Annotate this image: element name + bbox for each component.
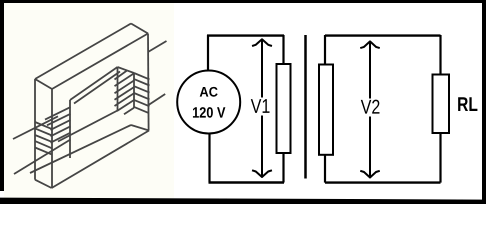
core front-right vertical edge xyxy=(147,34,150,131)
lead wire upper left xyxy=(13,116,58,139)
wire primary bottom xyxy=(209,181,285,183)
lead wire lower right xyxy=(149,94,166,105)
core window top edge xyxy=(70,67,118,100)
voltmeter arrow V2 xyxy=(361,41,379,177)
core window left vertical edge xyxy=(69,100,71,158)
primary lead wires (left) xyxy=(13,116,71,174)
transformer core T1 (isometric frame) xyxy=(30,24,149,189)
V2 arrow head bottom xyxy=(361,171,379,177)
coil turn side segments xyxy=(35,122,52,129)
core back-left vertical edge xyxy=(34,79,36,180)
wire secondary top xyxy=(325,34,441,36)
V2 arrow head top xyxy=(361,41,379,47)
core window right vertical edge xyxy=(117,67,119,111)
core top-right depth edge xyxy=(131,24,148,34)
coil ridge vertical xyxy=(133,73,135,108)
core front bottom edge xyxy=(52,131,149,189)
voltmeter arrow V1 xyxy=(253,39,271,177)
load resistor RL (rectangle) xyxy=(433,75,450,134)
core bottom-right depth edge xyxy=(131,125,149,131)
core window bottom edge xyxy=(58,111,118,142)
V2 arrow shaft xyxy=(369,42,371,99)
label AC xyxy=(200,87,218,97)
core front top edge xyxy=(52,34,148,90)
lead wire lower left xyxy=(14,140,71,175)
label V1 xyxy=(251,99,270,113)
primary winding coil on left leg xyxy=(35,107,71,155)
core back top edge xyxy=(35,24,131,80)
wire primary top xyxy=(207,34,284,36)
wire secondary bottom xyxy=(325,181,441,183)
wire secondary right top xyxy=(439,35,441,75)
wire source bottom xyxy=(208,134,210,183)
coil turn front segments xyxy=(45,107,71,120)
coil turn side segments xyxy=(134,73,150,79)
lead wire upper right xyxy=(148,41,167,52)
core back bottom edge xyxy=(30,125,131,173)
V1 arrow head bottom xyxy=(253,171,271,177)
label RL xyxy=(458,97,477,111)
core window top-right depth edge xyxy=(118,67,135,73)
label V2 xyxy=(361,100,380,114)
label 120 V xyxy=(193,107,225,118)
secondary loop wires xyxy=(325,35,441,183)
wire secondary left top xyxy=(324,35,326,65)
primary winding W1 (rectangle) xyxy=(277,64,291,153)
wire primary right top xyxy=(282,35,284,64)
core top-left depth edge xyxy=(35,79,52,89)
secondary lead wires (right) xyxy=(148,41,167,105)
wire primary right bottom xyxy=(282,153,284,183)
V1 arrow head top xyxy=(253,39,271,45)
wire source top xyxy=(207,35,209,71)
core window top inner edge xyxy=(74,72,120,104)
wire secondary left bottom xyxy=(324,155,326,183)
outer border frame xyxy=(0,0,486,3)
core front-left vertical edge xyxy=(51,89,53,188)
wire secondary right bottom xyxy=(439,133,441,183)
secondary winding coil on right leg xyxy=(115,71,150,115)
V1 arrow shaft xyxy=(261,40,263,98)
core bottom-left depth edge xyxy=(35,180,52,188)
transformer core bar xyxy=(304,35,307,179)
secondary winding W2 (rectangle) xyxy=(319,65,333,155)
AC source V source circle xyxy=(177,71,240,134)
coil turn front segments xyxy=(115,71,128,80)
